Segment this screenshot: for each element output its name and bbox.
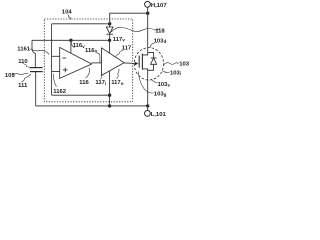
svg-text:116v: 116v xyxy=(73,43,86,49)
body diode 103i xyxy=(148,53,157,71)
label 110 xyxy=(18,59,30,68)
svg-text:103g: 103g xyxy=(154,92,167,98)
svg-text:103i: 103i xyxy=(170,70,181,76)
svg-text:1162: 1162 xyxy=(53,89,67,95)
label 118 xyxy=(111,27,165,34)
inner block left edge xyxy=(51,24,53,95)
label 1161 xyxy=(17,46,49,54)
svg-text:L,101: L,101 xyxy=(151,112,167,118)
label 116 xyxy=(79,68,90,86)
svg-text:103d: 103d xyxy=(154,38,167,44)
label 104 xyxy=(62,10,73,20)
wire drain 118 xyxy=(142,13,147,55)
inner block 1162 top edge / supply tap rail xyxy=(52,23,110,25)
label 116v xyxy=(71,42,85,49)
wire op-amp 117 supply xyxy=(109,40,111,53)
gate arrowhead xyxy=(135,62,139,66)
wire gate from 117o xyxy=(124,62,136,65)
plus input marker xyxy=(63,68,68,73)
inner block bottom edge xyxy=(52,94,110,96)
dashed circle transistor 103 xyxy=(134,48,163,80)
wire source lead xyxy=(142,69,147,106)
capacitor 105 bottom plate xyxy=(30,71,43,73)
label 117o xyxy=(111,69,124,86)
wire return to bottom xyxy=(109,95,111,106)
svg-text:117o: 117o xyxy=(111,80,124,86)
transistor 103 channel bar xyxy=(141,54,143,70)
capacitor 105 top plate xyxy=(30,67,43,69)
wire interstage 116o to 117i xyxy=(92,62,102,64)
svg-text:110: 110 xyxy=(18,59,28,65)
svg-text:111: 111 xyxy=(18,83,28,89)
node dot top rail xyxy=(108,22,111,25)
label 117i xyxy=(95,74,106,86)
label 103d xyxy=(150,38,166,47)
diode 117v anode lead xyxy=(109,24,111,27)
svg-text:103s: 103s xyxy=(158,82,171,88)
diode 117v xyxy=(106,27,113,40)
node dot H xyxy=(146,12,149,15)
svg-text:H,107: H,107 xyxy=(151,3,167,9)
capacitor 105 bottom lead wire 111 xyxy=(35,72,37,106)
supply rail wire 116v/117v xyxy=(32,39,110,41)
svg-text:117i: 117i xyxy=(95,80,106,86)
op-amp 116 xyxy=(60,47,92,78)
svg-text:117: 117 xyxy=(122,45,132,51)
label 111 xyxy=(18,74,31,89)
wire inverting input 1161 xyxy=(52,55,60,57)
label 117v xyxy=(113,37,126,43)
bottom wire 111 to L xyxy=(36,105,148,107)
node dot L xyxy=(146,104,149,107)
capacitor 105 top lead wire 110 xyxy=(32,40,35,67)
svg-text:116o: 116o xyxy=(85,48,98,54)
label 103i xyxy=(162,70,181,76)
svg-text:104: 104 xyxy=(62,10,73,16)
dashed box 104 xyxy=(44,19,132,102)
node dot 117 return to bottom wire xyxy=(108,94,111,97)
wire non-inverting input 1162 xyxy=(52,71,60,73)
label 103 xyxy=(164,62,190,68)
svg-text:1161: 1161 xyxy=(17,46,31,52)
svg-text:118: 118 xyxy=(155,28,165,34)
node dot 116v xyxy=(69,39,72,42)
op-amp buffer 117 xyxy=(102,48,125,76)
label 105 xyxy=(5,73,28,79)
transistor 103 gate bar xyxy=(138,56,140,68)
svg-text:117v: 117v xyxy=(113,37,126,43)
label 103s xyxy=(151,79,170,88)
node dot 117v xyxy=(108,39,111,42)
label 117 xyxy=(116,45,132,56)
minus input marker xyxy=(62,57,66,59)
svg-text:116: 116 xyxy=(79,80,89,86)
wire op-amp 117 return xyxy=(109,71,111,95)
svg-text:103: 103 xyxy=(179,62,190,68)
terminal H xyxy=(145,1,151,13)
wire top rail to H line xyxy=(110,13,148,24)
label 1162 xyxy=(53,74,67,95)
node dot bottom wire xyxy=(108,104,111,107)
label 116o xyxy=(85,48,100,63)
label 103g xyxy=(138,72,166,98)
terminal L xyxy=(145,106,151,116)
wire op-amp 116 supply xyxy=(70,40,72,53)
